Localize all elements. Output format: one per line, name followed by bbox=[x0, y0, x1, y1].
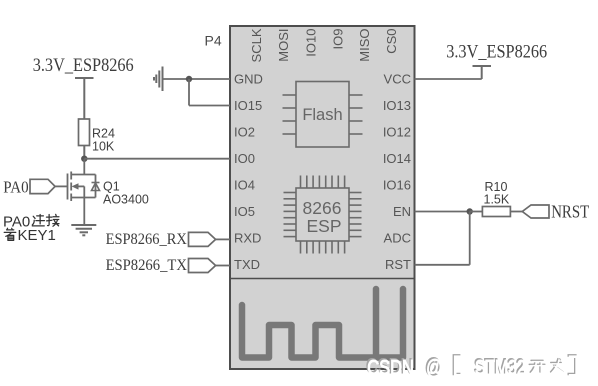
svg-text:10K: 10K bbox=[92, 140, 115, 154]
transistor Q1 AO3400 bbox=[68, 172, 96, 202]
svg-text:RXD: RXD bbox=[234, 231, 261, 246]
module antenna section divider bbox=[229, 278, 416, 280]
svg-text:EN: EN bbox=[393, 204, 411, 219]
svg-text:IO15: IO15 bbox=[234, 98, 262, 113]
svg-text:NRST: NRST bbox=[551, 202, 589, 222]
svg-text:KEY1: KEY1 bbox=[18, 227, 56, 244]
wire junction down to RST bbox=[469, 212, 471, 265]
wire RST bbox=[415, 264, 470, 266]
svg-text:MISO: MISO bbox=[357, 29, 372, 62]
wire junction to R10 bbox=[470, 211, 483, 213]
power flag 3.3V (right) bbox=[473, 66, 492, 79]
svg-text:TXD: TXD bbox=[234, 257, 260, 272]
svg-text:IO10: IO10 bbox=[304, 29, 319, 57]
wire to IO15 pin bbox=[189, 105, 230, 107]
svg-text:1.5K: 1.5K bbox=[484, 193, 510, 207]
wire TX tag to TXD bbox=[216, 265, 230, 267]
svg-text:Q1: Q1 bbox=[103, 180, 120, 194]
svg-text:ADC: ADC bbox=[384, 231, 411, 246]
wire junction down to Q1 drain bbox=[83, 159, 85, 175]
port PA0 bbox=[30, 179, 55, 193]
wire RX tag to RXD bbox=[216, 238, 230, 240]
ground (GND pin net) bbox=[154, 67, 163, 92]
svg-text:IO16: IO16 bbox=[383, 178, 411, 193]
wire ground to GND pin bbox=[163, 78, 231, 80]
svg-text:IO9: IO9 bbox=[330, 29, 345, 50]
svg-text:MOSI: MOSI bbox=[276, 29, 291, 62]
wire junction down bbox=[188, 79, 190, 106]
svg-text:SCLK: SCLK bbox=[249, 28, 264, 62]
node junction EN/RST bbox=[467, 208, 473, 214]
svg-text:IO5: IO5 bbox=[234, 204, 255, 219]
node junction GND bbox=[186, 76, 192, 82]
port ESP8266_RX bbox=[189, 232, 216, 246]
svg-text:PA0: PA0 bbox=[3, 178, 28, 197]
svg-text:IO14: IO14 bbox=[383, 151, 411, 166]
svg-text:IO12: IO12 bbox=[383, 125, 411, 140]
ground (Q1 source) bbox=[71, 225, 96, 235]
Q1 body diode bbox=[92, 183, 100, 191]
port NRST bbox=[522, 205, 549, 218]
svg-text:P4: P4 bbox=[205, 33, 222, 49]
svg-text:ESP8266_RX: ESP8266_RX bbox=[106, 231, 188, 248]
svg-text:IO4: IO4 bbox=[234, 178, 255, 193]
wire VCC to power flag bbox=[415, 78, 482, 80]
svg-text:ESP: ESP bbox=[306, 216, 341, 236]
svg-text:3.3V_ESP8266: 3.3V_ESP8266 bbox=[446, 42, 547, 63]
ESP 8266 chip icon bbox=[284, 176, 362, 254]
wire R10 to NRST tag bbox=[510, 211, 522, 213]
svg-text:AO3400: AO3400 bbox=[103, 193, 149, 207]
note PA0 connect KEY1 line1 bbox=[3, 213, 59, 230]
ESP8266 module P4 body bbox=[230, 26, 415, 369]
power flag 3.3V_ESP8266 (left) bbox=[75, 78, 94, 119]
wire Q1 source to ground bbox=[83, 198, 85, 225]
port ESP8266_TX bbox=[189, 259, 216, 273]
resistor R24 bbox=[79, 119, 90, 146]
wire EN to junction bbox=[415, 211, 470, 213]
svg-text:VCC: VCC bbox=[384, 72, 411, 87]
Flash chip box bbox=[283, 82, 363, 148]
svg-text:IO13: IO13 bbox=[383, 98, 411, 113]
svg-text:ESP8266_TX: ESP8266_TX bbox=[106, 257, 188, 274]
wire IO0 to module bbox=[84, 158, 230, 160]
svg-text:CS0: CS0 bbox=[384, 29, 399, 54]
note line2 KEY1 bbox=[4, 227, 56, 244]
wire R24 to junction bbox=[83, 146, 85, 159]
svg-text:GND: GND bbox=[234, 72, 263, 87]
watermark CSDN @ STM32 bbox=[366, 355, 577, 379]
svg-text:3.3V_ESP8266: 3.3V_ESP8266 bbox=[33, 55, 134, 76]
svg-text:Flash: Flash bbox=[302, 106, 342, 124]
svg-text:RST: RST bbox=[385, 257, 411, 272]
node junction IO0 bbox=[81, 156, 87, 162]
svg-text:IO2: IO2 bbox=[234, 125, 255, 140]
antenna meander bbox=[242, 289, 403, 358]
svg-text:IO0: IO0 bbox=[234, 151, 255, 166]
wire PA0 to Q1 gate bbox=[55, 185, 67, 187]
Q1 source body arrow bbox=[72, 183, 79, 189]
resistor R10 bbox=[482, 207, 510, 217]
svg-text:R24: R24 bbox=[92, 127, 115, 141]
svg-text:8266: 8266 bbox=[303, 198, 342, 218]
